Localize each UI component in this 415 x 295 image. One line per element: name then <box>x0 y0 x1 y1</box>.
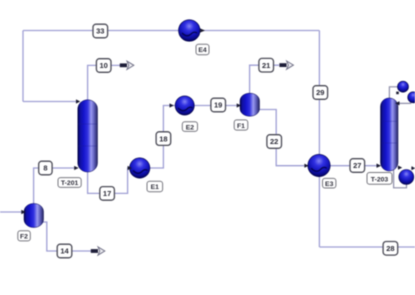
stream box 33 <box>93 24 108 38</box>
label E4 <box>196 44 209 55</box>
svg-text:T-201: T-201 <box>61 180 79 187</box>
svg-text:14: 14 <box>60 247 69 256</box>
arrow out of E4 <box>200 28 205 32</box>
svg-text:T-203: T-203 <box>371 176 389 183</box>
stream box 19 <box>211 98 226 112</box>
junction dot condenser <box>396 92 399 95</box>
svg-text:28: 28 <box>386 244 394 253</box>
wire T-203 overhead to condenser <box>389 87 398 100</box>
reboiler sphere T-203 <box>399 170 414 185</box>
wire bottom stream 28 <box>319 246 415 248</box>
wire vertical stream 29 <box>318 31 320 248</box>
label E3 <box>323 178 336 188</box>
stream box 10 <box>96 59 111 73</box>
svg-text:E2: E2 <box>186 124 195 131</box>
svg-text:21: 21 <box>262 61 270 70</box>
arrow into E1 <box>128 166 132 170</box>
svg-text:E1: E1 <box>151 184 160 191</box>
stream box 27 <box>350 159 365 173</box>
wire left vertical from node to T-201 top feed <box>22 31 24 102</box>
wire E1 to E2 via stream 18 <box>148 106 177 169</box>
wire reboiler return loop <box>394 170 407 188</box>
svg-text:E3: E3 <box>325 181 334 188</box>
arrow into T-201 stream 8 <box>74 166 78 170</box>
vessel F1 <box>240 93 260 116</box>
exchanger E1 <box>130 158 150 178</box>
wire reflux return to T-203 <box>398 101 411 103</box>
condenser sphere T-203 <box>398 81 409 92</box>
exchanger E3 <box>308 154 330 176</box>
wire feed into F2 <box>0 211 22 213</box>
label T-201 <box>58 178 81 188</box>
label T-203 <box>367 173 392 185</box>
arrow into F2 <box>21 210 25 214</box>
wire F1 side to E3 via stream 22 <box>259 110 309 166</box>
wire T-201 bottoms to E1 <box>88 168 133 193</box>
stream box 14 <box>57 244 72 258</box>
wire F2 top to T-201 via stream 8 <box>34 168 78 205</box>
reflux drum sphere T-203 <box>408 92 415 103</box>
arrow reboiler product <box>412 166 415 170</box>
stream box 18 <box>156 132 171 146</box>
stream box 29 <box>313 86 328 100</box>
arrow into T-201 feed <box>76 99 80 103</box>
stream box 17 <box>100 187 115 201</box>
exchanger E4 <box>179 20 201 42</box>
stream box 8 <box>39 161 52 175</box>
wire F1 top to stream 21 <box>250 65 279 94</box>
column T-203 <box>381 98 399 171</box>
label E2 <box>182 122 197 132</box>
wire T-203 bottom to reboiler <box>398 167 402 169</box>
label F2 <box>18 231 31 241</box>
export arrow stream 14 <box>91 247 105 255</box>
svg-text:33: 33 <box>96 27 104 36</box>
svg-text:29: 29 <box>316 88 324 97</box>
wire reboiler product to right edge <box>411 167 415 169</box>
wire E2 to F1 via stream 19 <box>193 105 240 107</box>
stream box 21 <box>259 58 274 72</box>
export arrow stream 10 <box>120 61 134 69</box>
svg-text:22: 22 <box>270 137 278 146</box>
arrow into F1 <box>237 103 241 107</box>
svg-text:10: 10 <box>100 61 108 70</box>
arrow into E3 <box>304 164 308 168</box>
svg-text:17: 17 <box>103 189 111 198</box>
exchanger E2 <box>175 96 194 115</box>
vessel F2 <box>24 204 44 228</box>
arrow into E2 <box>170 103 174 107</box>
column T-201 <box>78 100 98 172</box>
svg-text:27: 27 <box>353 161 361 170</box>
svg-text:8: 8 <box>43 164 47 173</box>
label F1 <box>234 120 248 130</box>
wire F2 bottom to stream 14 <box>43 222 92 251</box>
arrow into T-203 <box>377 164 382 168</box>
label E1 <box>147 181 163 192</box>
export arrow stream 21 <box>279 61 293 69</box>
svg-text:19: 19 <box>214 101 222 110</box>
svg-text:F2: F2 <box>20 234 28 241</box>
svg-text:E4: E4 <box>198 47 207 54</box>
svg-text:F1: F1 <box>237 123 245 130</box>
svg-text:18: 18 <box>159 134 167 143</box>
wire E3 to T-203 via stream 27 <box>329 165 380 167</box>
stream box 28 <box>383 242 398 256</box>
arrow reflux into column <box>395 101 399 105</box>
stream box 22 <box>267 135 282 149</box>
wire into T-201 top left <box>23 101 79 103</box>
wire T-201 overhead to stream 10 <box>88 65 120 100</box>
arrow into reboiler <box>398 166 402 170</box>
wire stream 33 top horizontal <box>23 30 319 32</box>
